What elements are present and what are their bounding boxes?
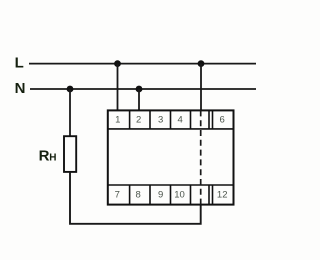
svg-text:H: H	[49, 152, 56, 163]
svg-text:4: 4	[178, 115, 183, 126]
svg-text:N: N	[15, 80, 26, 97]
svg-text:6: 6	[220, 115, 225, 126]
svg-text:8: 8	[136, 190, 141, 201]
svg-text:12: 12	[217, 190, 228, 201]
svg-text:L: L	[15, 55, 24, 72]
svg-text:10: 10	[174, 190, 185, 201]
svg-text:7: 7	[115, 190, 120, 201]
svg-text:9: 9	[158, 190, 163, 201]
svg-text:2: 2	[136, 115, 141, 126]
svg-text:R: R	[39, 147, 50, 164]
svg-text:1: 1	[115, 115, 120, 126]
svg-text:3: 3	[158, 115, 163, 126]
